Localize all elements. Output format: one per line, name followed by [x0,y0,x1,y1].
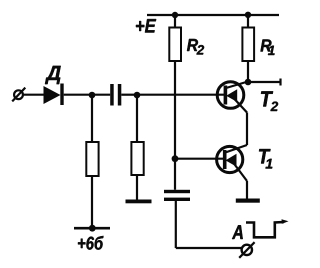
wire T1 emitter to ground [246,181,248,199]
wire rail to R2 [174,15,176,28]
label R2 [187,39,204,55]
resistor R1 [242,28,254,62]
+E supply rail [147,14,279,16]
wire C2 to bottom rail [175,201,177,248]
wire R1 to collector node [247,61,249,82]
ground (under second resistor) [126,200,152,204]
label T1 [259,149,272,168]
+6v terminal dot [89,225,96,232]
diode D [44,84,64,106]
label +6v [78,236,103,250]
transistor T1 [217,145,247,181]
resistor R2 [169,28,181,62]
capacitor C2 (output coupling) [164,190,190,201]
wire collector node to right edge [248,81,281,83]
wire R2 bottom long vertical to coupling cap [174,61,176,190]
node R1 top dot [245,12,251,18]
resistor (left, to +6v) [86,142,98,176]
input terminal [12,88,25,102]
wire node2 down to second resistor [136,95,138,142]
node T2 collector dot [245,79,252,86]
label T2 [261,91,278,111]
label +E [136,19,156,32]
wire C1 to node2 [121,94,137,96]
wire T2 emitter to T1 collector [246,113,248,146]
wire node1 down to lower resistor [91,95,93,142]
capacitor C1 [110,84,121,106]
wire input to diode [23,94,44,96]
+6v terminal bar [74,227,110,230]
resistor (second, to ground) [131,142,143,175]
node R2 top dot [172,12,178,18]
bottom output rail [176,247,242,249]
label A [232,225,243,239]
node 2 junction dot [134,92,141,99]
wire node2 to T2 base [137,94,224,96]
wire resistor to +6v terminal [91,176,93,228]
wire resistor to ground [136,175,138,200]
wire T1 base [175,158,223,160]
wire rail to R1 [247,15,249,28]
ground (under T1 emitter) [236,199,260,203]
output waveform symbol [246,219,289,237]
terminal tick right [279,79,281,86]
node 1 junction dot [89,92,96,99]
transistor T2 [217,82,248,113]
output terminal [239,242,254,258]
label D (diode) [45,66,61,84]
wire node1 to capacitor C1 [92,94,110,96]
label R1 [261,39,275,55]
wire diode to node1 [64,94,92,96]
node T1 base junction dot [172,155,179,162]
